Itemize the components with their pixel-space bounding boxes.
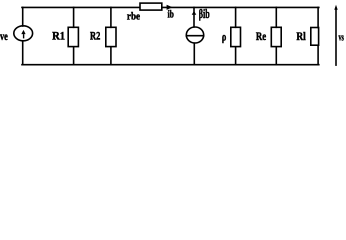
svg-text:rbe: rbe xyxy=(127,11,140,23)
svg-text:Rl: Rl xyxy=(296,31,305,43)
svg-text:vs: vs xyxy=(339,31,345,43)
svg-text:R2: R2 xyxy=(90,31,100,43)
svg-text:βib: βib xyxy=(199,6,210,21)
svg-text:Re: Re xyxy=(256,31,266,43)
svg-text:ve: ve xyxy=(0,29,8,43)
svg-text:R1: R1 xyxy=(52,31,65,43)
svg-text:ib: ib xyxy=(168,9,174,21)
svg-text:ρ: ρ xyxy=(222,32,226,44)
